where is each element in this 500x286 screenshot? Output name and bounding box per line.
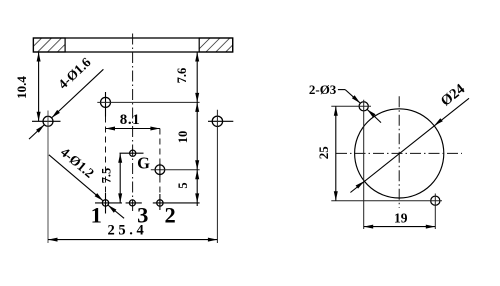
svg-text:7.5: 7.5	[100, 168, 114, 184]
svg-text:10.4: 10.4	[14, 76, 29, 99]
svg-text:2: 2	[164, 203, 175, 228]
svg-text:25: 25	[316, 146, 331, 160]
dimension 19	[364, 226, 436, 228]
panel cutout circle Ø24	[355, 109, 444, 198]
pin 3 hole with crosshair	[129, 200, 135, 206]
horizontal centerline right view	[336, 152, 462, 154]
leader tail with arrow at M1 lower-left	[29, 125, 44, 139]
dimension 25.4	[48, 239, 217, 241]
dimension 7.5	[119, 153, 121, 203]
mounting hole H1 with crosshair / extension lines	[359, 102, 368, 111]
pin 1 hole with crosshair	[102, 200, 108, 206]
hatched flange right end	[199, 38, 233, 52]
svg-text:1: 1	[91, 203, 102, 228]
mounting hole M1 with crosshair	[43, 116, 53, 126]
svg-text:19: 19	[394, 211, 408, 226]
dashed projection line x=105.5	[105, 117, 107, 195]
svg-text:5: 5	[176, 182, 190, 188]
diameter line Ø24 with arrows	[350, 98, 469, 192]
pin 2 hole with crosshair and extension	[157, 200, 163, 206]
dimension 8.1	[106, 128, 160, 130]
mounting hole H2 with crosshair / extension lines	[431, 196, 440, 205]
svg-text:7.6: 7.6	[175, 68, 189, 84]
dimension 25	[335, 106, 337, 200]
svg-text:8.1: 8.1	[120, 112, 141, 128]
mid-right hole with extension line	[155, 165, 165, 175]
svg-text:2-Ø3: 2-Ø3	[309, 82, 337, 97]
hatched flange left end	[33, 38, 65, 52]
leader line 4-Ø1.2 through pin 1	[49, 155, 103, 201]
svg-text:10: 10	[176, 131, 190, 144]
leader line 2-Ø3 through H1	[338, 89, 345, 91]
stacked dimensions 7.6, 10, 5	[196, 52, 198, 206]
top hole with crosshair and extension line	[101, 97, 111, 107]
vertical centerline left view	[132, 34, 134, 212]
dimension 10.4	[38, 52, 40, 121]
flange bar section outline	[33, 38, 232, 52]
projection line x=159.9	[159, 129, 161, 164]
svg-text:G: G	[137, 153, 150, 172]
mounting hole M2 with crosshair	[212, 116, 222, 126]
vertical centerline right view	[398, 96, 400, 208]
leader line 4-Ø1.6	[52, 69, 104, 118]
svg-text:2 5 . 4: 2 5 . 4	[107, 223, 143, 239]
ground pin hole G	[130, 150, 136, 156]
